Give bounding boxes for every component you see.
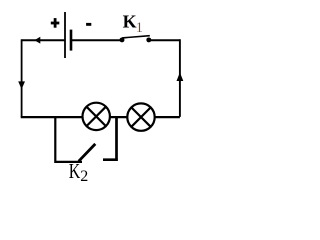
svg-text:1: 1 — [136, 20, 143, 36]
svg-text:2: 2 — [80, 168, 88, 185]
svg-text:K: K — [69, 159, 81, 183]
svg-text:K: K — [123, 11, 137, 31]
